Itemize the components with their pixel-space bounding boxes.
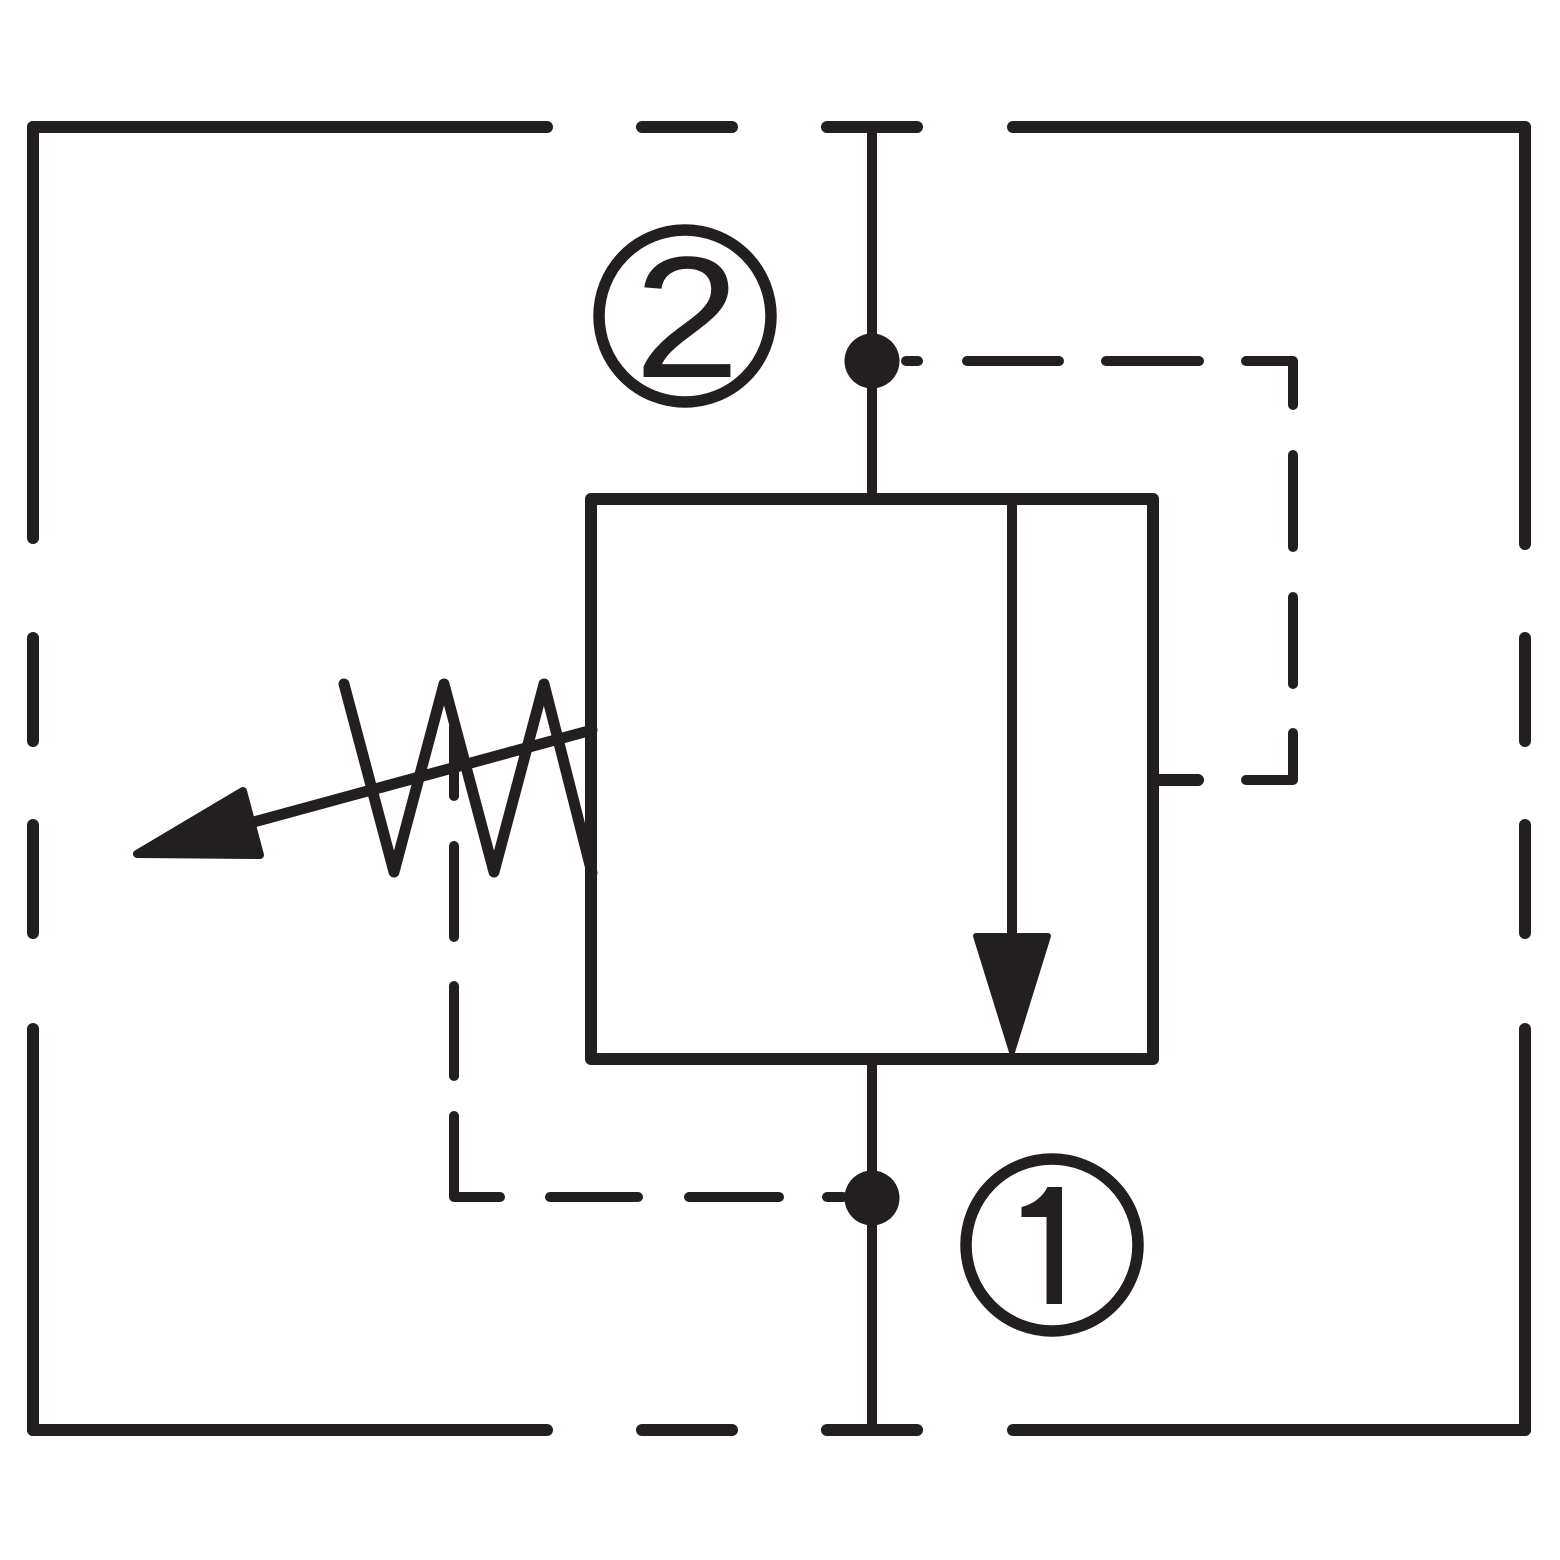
port label 1 (circled) [966,1159,1138,1331]
pilot line from port 1 to spring (dashed, left run) [454,727,843,1197]
pilot line from port 2 (dashed, right run) [906,361,1293,780]
flow path arrowhead (down) [976,936,1048,1052]
adjustment arrowhead [137,791,260,855]
pilot stub on valve body right side [1153,774,1198,786]
valve envelope dashed boundary: left side [27,127,39,1430]
wire: port 1 vertical line [867,1059,877,1430]
adjustable spring (zigzag) [344,684,592,873]
valve body U1 (square envelope) [591,499,1153,1059]
adjustment arrow shaft through spring [250,730,592,823]
valve envelope dashed boundary: top side [33,121,1525,133]
svg-text:2: 2 [634,220,740,414]
valve envelope dashed boundary: bottom side [33,1424,1525,1436]
junction node at port 1 [845,1171,900,1226]
port 2 boundary tick [827,121,917,133]
valve envelope dashed boundary: right side [1519,127,1531,1430]
flow path arrow shaft inside body [1007,499,1017,940]
digit 1 of port label [1022,1187,1063,1304]
junction node at port 2 [845,334,900,389]
port label 2 (circled) [599,230,771,402]
port 1 boundary tick [827,1424,917,1436]
wire: port 2 vertical line [867,127,877,499]
